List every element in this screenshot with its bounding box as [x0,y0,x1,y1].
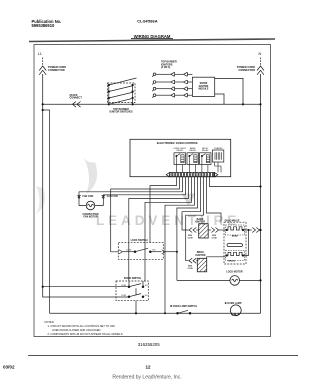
svg-text:IGNITOR: IGNITOR [196,254,206,257]
bake row quick connects left [189,224,226,238]
svg-text:✱ OVEN LAMP: ✱ OVEN LAMP [225,302,242,305]
svg-text:FAN CON: FAN CON [107,195,118,198]
connector FAN CON left [77,196,81,199]
node junction EOC neutral / N rail [259,185,261,187]
svg-text:RELAY: RELAY [189,149,196,152]
connector FAN CON right [102,196,106,199]
svg-text:CON: CON [188,237,193,239]
svg-text:CON: CON [188,268,193,270]
transformer T1 [212,147,223,172]
wire p4 to fan motor right [95,177,186,206]
wire p6 to door switch NO [145,177,192,282]
svg-text:NOTES:: NOTES: [45,320,55,324]
wire p1 to lock switch NO [150,177,177,243]
dashed enclosure [108,83,136,103]
bake row quick connects right [211,228,218,233]
wire p5 to door switch COM [129,177,189,282]
wire p8 to lock motor [177,177,198,281]
svg-text:DOOR SWITCH: DOOR SWITCH [124,277,142,280]
ignitor 2 [152,80,192,85]
svg-text:MODULE: MODULE [199,89,209,91]
svg-text:RELAY: RELAY [176,149,183,152]
top burner ignitor switches group [108,78,137,105]
svg-text:2. COMPONENTS WITH ✱ DO NOT A: 2. COMPONENTS WITH ✱ DO NOT APPEAR ON AL… [48,332,124,336]
wire: broil ignitor to valve broil coil [207,257,226,259]
svg-text:NC: NC [145,295,149,297]
wire: L1 rail branch to door switch bottom COM [43,286,129,288]
broil row quick connects [189,230,249,272]
node junction lamp feed / lamp wire [164,312,166,314]
svg-text:Rendered by LeadVenture, Inc.: Rendered by LeadVenture, Inc. [112,375,181,381]
svg-text:LEADVENTURE: LEADVENTURE [96,213,240,228]
broil valve coil [226,250,245,260]
node junction door switch / lamp wire [135,312,137,314]
wire p9 to bake ignitor row [182,177,201,230]
power cord connector L1 (arrow) [42,58,44,67]
wire: bottom horizontal (lamp circuit) [50,312,261,314]
svg-text:CONNECT: CONNECT [70,97,83,100]
wire p2 to lock switch COM [111,177,180,252]
broil ignitor R2 (hot surface ignitor) [197,258,206,272]
svg-text:CON: CON [212,237,217,239]
svg-text:ELECTRONIC OVEN CONTROL: ELECTRONIC OVEN CONTROL [157,141,199,145]
relay K1 (oven light relay) [173,148,186,173]
ignitor 1 [152,72,192,77]
svg-text:316255205: 316255205 [138,342,161,347]
svg-text:1. CIRCUIT SHOWN WITH ALL CON: 1. CIRCUIT SHOWN WITH ALL CONTROLS SET T… [48,324,116,328]
node junction broil return / valve output [248,229,250,231]
wire: L1 branch to door switch top COM [43,110,129,313]
svg-text:CONNECTOR: CONNECTOR [238,68,255,72]
wire: module second output [215,94,224,104]
svg-text:IGNITOR: IGNITOR [195,221,205,224]
svg-text:✱ OVEN LAMP SWITCH: ✱ OVEN LAMP SWITCH [170,305,197,308]
wire: L1 rail down to main horizontal [42,74,44,104]
switch 1 [108,84,110,86]
bake ignitor R1 (hot surface ignitor) [199,224,209,238]
svg-text:IGNITOR SWITCHES: IGNITOR SWITCHES [109,111,133,114]
svg-text:5995386910: 5995386910 [32,23,55,28]
diagram border frame [34,45,271,337]
wire p10 to broil ignitor row [186,177,204,261]
svg-text:COM: COM [121,295,126,297]
convection fan motor B1 [86,201,95,210]
svg-text:03/02: 03/02 [3,365,15,370]
node junction main wire / N rail [259,103,261,105]
svg-text:NO: NO [145,285,149,287]
wire p7 to oven lamp switch feed [165,177,195,313]
electronic oven control U2 box [130,139,231,176]
svg-text:LOCK MOTOR: LOCK MOTOR [226,271,243,274]
power cord connector N (arrow) [260,58,262,67]
footer rule [28,355,298,357]
top burner ignitors rows [152,72,192,97]
svg-text:IGNITOR: IGNITOR [199,86,209,88]
switch 4 on main wire [108,104,110,106]
svg-text:NO: NO [153,250,157,252]
wire p12 to neutral rail [210,177,261,187]
wire p3 to fan motor left [79,177,183,206]
node junction module output / main wire [242,103,244,105]
node junction L1 rail / door COM branch [42,286,44,288]
svg-text:FAN MOTOR: FAN MOTOR [83,216,98,219]
svg-text:COM: COM [126,250,131,252]
ignitor 3 [152,87,192,92]
node junction valve output / N rail [259,229,261,231]
relay K2 (bake relay) [187,147,199,173]
switch 2 [108,91,110,93]
svg-text:BROIL: BROIL [228,260,235,262]
svg-text:CONNECTOR: CONNECTOR [48,68,65,72]
wire: L1 rail lower run to bottom [43,104,129,297]
spark ignitor module U1 [192,77,214,96]
svg-text:12: 12 [145,365,151,370]
svg-text:FAN CON: FAN CON [83,195,94,198]
quick connect symbol on main wire [73,102,81,108]
svg-text:SPARK: SPARK [200,82,208,85]
header rule [29,39,275,42]
wire: valve output to N [243,228,261,233]
node junction L1 / branch wire [42,109,44,111]
node junction lock switch NO / lock motor feed [176,251,178,253]
node junction L1 / main wire [42,103,44,105]
svg-text:LOCK SWITCH: LOCK SWITCH [131,239,148,242]
wire: main horizontal L1 run [43,103,261,105]
wire: module L1 output to main wire [215,78,243,104]
watermark [36,158,240,228]
wire: N rail [260,74,262,313]
wire p11 to valve feed [207,177,222,222]
ignitor 4 [152,93,192,98]
left rail [108,85,110,104]
svg-text:OVEN DOOR CLOSED AND UNLOCKED.: OVEN DOOR CLOSED AND UNLOCKED. [52,328,101,332]
harness fan-out wires from EOC [79,177,261,313]
EOC connector strip P1 [166,172,218,176]
svg-text:L1: L1 [38,52,42,56]
bake valve coil [226,225,245,235]
svg-text:N: N [259,52,262,56]
valve actuator bar [227,244,243,247]
right rail [132,85,134,104]
svg-text:RELAY: RELAY [202,149,209,152]
node junction lock motor / N rail [259,279,261,281]
svg-text:(2 OR 4): (2 OR 4) [161,66,170,69]
switch 3 [108,97,110,99]
relay K3 (broil relay) [200,148,212,173]
wire: broil coil return to bake output [243,230,249,256]
svg-text:CLGF586A: CLGF586A [137,19,158,24]
svg-text:BAKE: BAKE [232,235,239,238]
svg-text:WIRING DIAGRAM: WIRING DIAGRAM [134,34,171,39]
